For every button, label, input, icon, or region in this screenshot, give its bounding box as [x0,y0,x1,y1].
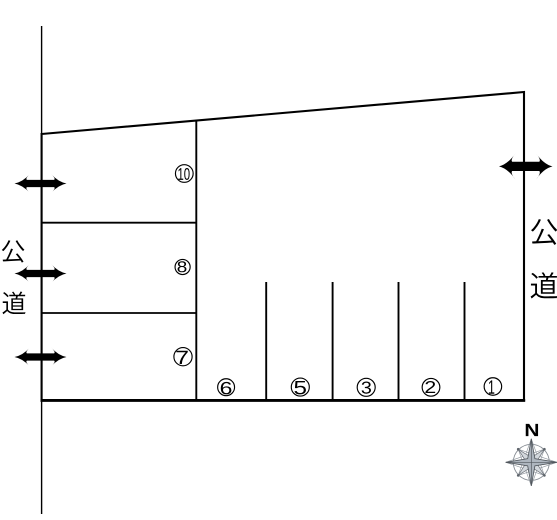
diagonal tip dots [517,448,546,477]
parking space number 5 (circled) [291,378,309,396]
parking space number 10 (circled) [175,165,193,183]
diagonal short star [505,436,557,489]
wire: divider between space 8 and 7 [42,312,197,314]
label: right road text 道 [531,272,557,298]
parking space number 7 (circled) [174,348,192,366]
parking space number 3 (circled) [357,378,375,396]
wire: stall divider 5/3 [332,282,334,400]
center cross lines [506,439,557,486]
entrance arrow (right) [499,153,553,179]
node: parcel outline (trapezoid) [42,92,524,400]
compass rose [505,436,557,489]
wire: bottom boundary (thick) [41,399,526,402]
wire: stall divider 2/1 [464,282,466,400]
main 4-point star [506,439,557,486]
wire: inner vertical line (left column right edge) [195,121,197,400]
label: left road text 道 [2,292,25,315]
label: right road text 公 [531,219,557,245]
entrance arrow (left, bottom) [15,347,67,366]
entrance arrow (left, middle) [15,264,67,283]
wire: divider between space 10 and 8 [42,222,197,224]
parking space number 2 (circled) [422,378,440,396]
compass N label [526,424,538,436]
label: left road text 公 [2,240,25,262]
wire: left public-road boundary line (vertical full height) [41,26,43,514]
parking space number 6 (circled) [218,379,235,396]
parking space number 8 (circled) [175,259,190,274]
wire: stall divider 6/5 [265,282,267,400]
wire: stall divider 3/2 [398,282,400,400]
parking space number 1 (circled) [484,378,502,396]
entrance arrow (left, top) [15,174,67,193]
